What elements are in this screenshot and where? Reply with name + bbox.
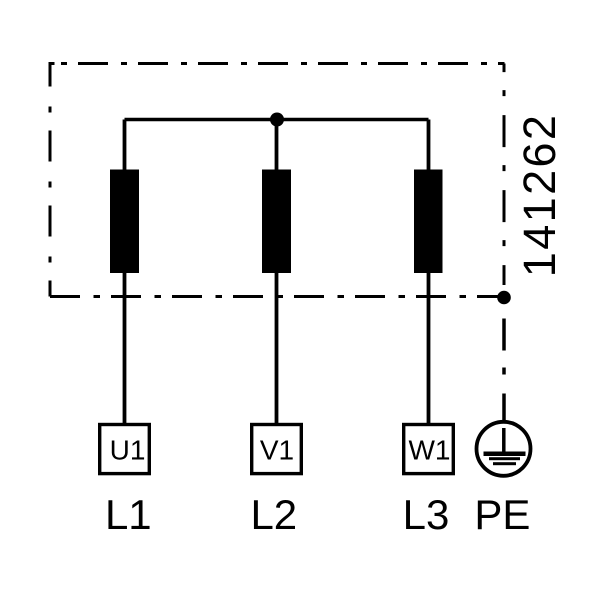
junction on top bus bbox=[270, 113, 284, 127]
enclosure boundary bottom (dash-dot) bbox=[50, 295, 505, 298]
svg-text:U1: U1 bbox=[110, 434, 146, 465]
svg-text:141262: 141262 bbox=[514, 113, 565, 278]
svg-text:L1: L1 bbox=[105, 491, 152, 538]
enclosure boundary top (dash-dot) bbox=[50, 62, 505, 65]
svg-text:L3: L3 bbox=[403, 491, 450, 538]
svg-text:L2: L2 bbox=[250, 491, 297, 538]
wire: bus down to element E3 bbox=[427, 120, 431, 173]
wire: element E2 to terminal V1 bbox=[275, 272, 279, 423]
svg-text:V1: V1 bbox=[260, 434, 294, 465]
wire: element E1 to terminal U1 bbox=[123, 272, 127, 423]
wire: top bus from L1 branch to L3 branch bbox=[125, 118, 429, 122]
heating element E2 bbox=[262, 170, 291, 274]
heating element E1 bbox=[110, 170, 139, 274]
enclosure boundary left (dash-dot) bbox=[49, 64, 52, 297]
terminal box W1 bbox=[404, 425, 454, 474]
svg-text:W1: W1 bbox=[409, 434, 451, 465]
wire: element E3 to terminal W1 bbox=[427, 272, 431, 423]
enclosure boundary top-left corner stub bbox=[49, 62, 55, 65]
terminal box V1 bbox=[252, 425, 302, 474]
protective earth symbol PE bbox=[477, 422, 531, 476]
heating element E3 bbox=[414, 170, 443, 274]
svg-text:PE: PE bbox=[474, 491, 530, 538]
wire: bus down to element E1 bbox=[123, 120, 127, 173]
enclosure boundary right (dash-dot) bbox=[503, 64, 506, 286]
terminal box U1 bbox=[100, 425, 150, 474]
wire: PE dash-dot down to earth symbol bbox=[502, 298, 506, 422]
junction: PE tap on enclosure corner bbox=[497, 291, 511, 305]
wire: bus down to element E2 bbox=[275, 120, 279, 173]
